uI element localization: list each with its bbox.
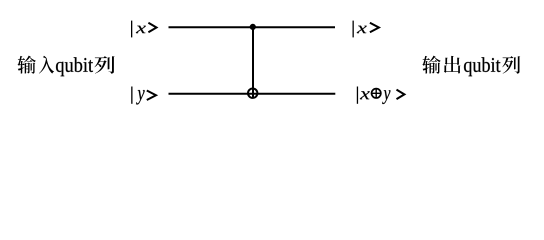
hanzi shu of input label [17, 56, 35, 74]
hanzi ru of input label [39, 56, 54, 74]
angle bracket > of input |x> [148, 23, 156, 33]
wire vertical control-target link [252, 27, 254, 98]
italic y of output xor ket [382, 90, 390, 104]
italic x of input ket [136, 26, 146, 33]
wire top qubit line [169, 26, 336, 28]
ket bar | of output |x> [353, 21, 354, 38]
ket bar | of output |x xor y> [357, 87, 358, 104]
italic x of output xor ket [360, 91, 370, 99]
hanzi lie of output label [502, 56, 520, 73]
xor symbol circle in |x xor y> [372, 89, 381, 98]
word qubit of output label [464, 57, 501, 76]
xor symbol vertical bar [375, 88, 377, 99]
control dot (CNOT control) [250, 24, 256, 30]
xor symbol horizontal bar [371, 92, 382, 94]
hanzi lie of input label [94, 56, 114, 73]
italic y of input ket [136, 90, 145, 104]
ket bar | of input |y> [131, 87, 132, 104]
ket bar | of input |x> [131, 21, 132, 38]
angle bracket > of output |x> [370, 23, 379, 33]
hanzi shu of output label [422, 56, 440, 74]
XOR target circle (CNOT target) [248, 89, 257, 98]
italic x of output ket [357, 26, 367, 33]
hanzi chu of output label [444, 56, 461, 73]
angle bracket > of output |x xor y> [397, 90, 405, 100]
word qubit of input label [56, 57, 93, 76]
angle bracket > of input |y> [147, 91, 156, 101]
wire bottom qubit line [169, 93, 336, 95]
